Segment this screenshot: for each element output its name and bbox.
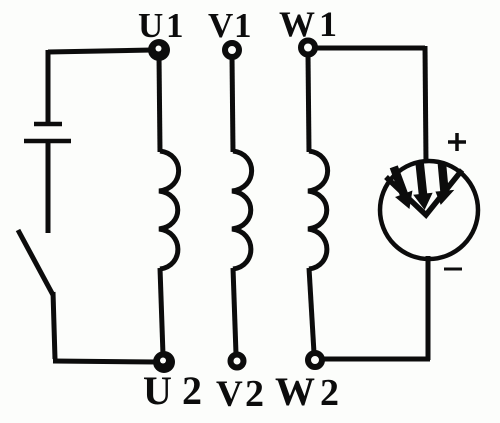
wire coil U to U2 xyxy=(160,268,163,355)
terminal U1 xyxy=(148,39,170,61)
label U1 xyxy=(138,6,184,45)
terminal V2 xyxy=(231,355,244,368)
svg-text:1: 1 xyxy=(234,6,252,45)
galvanometer needle left arrow xyxy=(391,166,412,207)
svg-text:W: W xyxy=(279,4,315,44)
minus polarity mark xyxy=(444,268,462,271)
wire W1 to coil xyxy=(308,54,309,152)
wire left vertical upper xyxy=(46,50,51,124)
wire top-left horizontal xyxy=(48,50,152,52)
svg-text:U: U xyxy=(138,6,163,45)
svg-text:2: 2 xyxy=(245,373,264,415)
wire switch to bottom corner xyxy=(53,292,55,359)
label V2 xyxy=(216,373,264,415)
wire V1 to coil xyxy=(232,56,233,152)
wire coil W to W2 xyxy=(309,268,314,353)
wire meter to bottom corner xyxy=(426,256,431,360)
svg-text:V: V xyxy=(208,6,233,45)
wire U1 to coil xyxy=(159,55,160,152)
svg-text:W: W xyxy=(275,369,315,414)
terminal W1 xyxy=(301,41,315,55)
galvanometer needle right arrow xyxy=(437,164,453,203)
galvanometer P body xyxy=(380,161,478,259)
inductor winding U xyxy=(159,151,179,269)
svg-text:U: U xyxy=(143,368,172,413)
label U2 xyxy=(143,368,202,413)
svg-text:1: 1 xyxy=(319,4,337,44)
wire down to meter xyxy=(425,46,426,163)
label W2 xyxy=(275,369,339,414)
wire top-right horizontal xyxy=(315,46,425,51)
terminal V1 xyxy=(225,43,239,57)
battery B1 long plate xyxy=(24,139,71,144)
wire bottom-right horizontal xyxy=(318,357,430,362)
label V1 xyxy=(208,6,252,45)
battery B1 short plate xyxy=(34,122,62,127)
svg-text:2: 2 xyxy=(182,368,202,413)
svg-text:V: V xyxy=(216,374,243,415)
plus polarity mark xyxy=(448,133,466,151)
wire battery to switch xyxy=(46,141,51,233)
svg-text:2: 2 xyxy=(320,372,339,414)
galvanometer scale V mark xyxy=(386,170,462,215)
svg-text:1: 1 xyxy=(166,6,184,45)
wire bottom-left horizontal xyxy=(53,361,156,362)
wire coil V to V2 xyxy=(233,268,236,354)
inductor winding V xyxy=(232,151,252,269)
terminal U2 xyxy=(153,351,175,373)
switch S blade xyxy=(18,230,53,295)
label W1 xyxy=(279,4,337,44)
galvanometer needle middle arrow xyxy=(415,161,432,208)
terminal W2 xyxy=(308,353,322,367)
inductor winding W xyxy=(308,151,328,269)
